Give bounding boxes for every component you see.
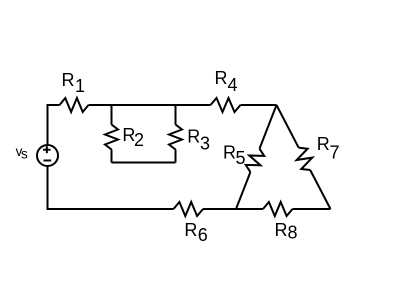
wire R7 to bottom right corner: [310, 170, 330, 209]
wire top middle: [89, 104, 211, 106]
label vs: [16, 144, 28, 162]
resistor R5: [246, 149, 265, 172]
wire apex to R7: [277, 105, 299, 148]
wire apex to R5: [260, 105, 277, 149]
voltage source minus sign: [44, 160, 52, 162]
wire R3 branch bottom: [175, 150, 177, 163]
svg-text:R: R: [275, 220, 288, 240]
svg-text:5: 5: [236, 148, 246, 168]
svg-text:3: 3: [200, 133, 210, 153]
wire bottom right: [293, 208, 331, 210]
wire R3 branch top: [175, 105, 177, 125]
svg-text:1: 1: [75, 76, 85, 96]
svg-text:R: R: [187, 127, 200, 147]
svg-text:7: 7: [330, 143, 340, 163]
wire source bottom to lower-left corner: [48, 166, 174, 209]
wire bottom middle: [203, 208, 263, 210]
svg-text:2: 2: [134, 130, 144, 150]
resistor R8: [263, 202, 293, 216]
svg-text:s: s: [21, 147, 28, 162]
svg-text:6: 6: [198, 225, 208, 245]
resistor R1: [60, 98, 89, 112]
voltage source VS circle: [37, 145, 58, 166]
svg-text:4: 4: [228, 75, 238, 95]
wire top right to apex node: [241, 104, 277, 106]
resistor R2: [105, 125, 118, 150]
wire R5 to bottom node: [236, 172, 250, 209]
wire R2 branch bottom: [111, 150, 113, 163]
resistor R3: [169, 125, 182, 150]
resistor R4: [211, 98, 241, 112]
svg-text:R: R: [184, 220, 197, 240]
svg-text:R: R: [62, 70, 75, 90]
wire R2 branch top: [111, 105, 113, 125]
voltage source plus sign: [43, 146, 51, 160]
wire top-left segment: [48, 105, 60, 145]
svg-text:R: R: [223, 143, 236, 163]
resistor R7: [297, 148, 313, 170]
svg-text:R: R: [215, 68, 228, 88]
wire parallel loop bottom: [112, 162, 176, 164]
svg-text:8: 8: [288, 223, 298, 243]
svg-text:R: R: [317, 134, 330, 154]
resistor R6: [174, 202, 204, 216]
